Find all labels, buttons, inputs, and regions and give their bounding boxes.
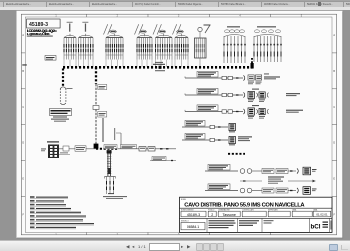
svg-text:01.02.01: 01.02.01 (316, 213, 328, 217)
svg-text:bСƖ: bСƖ (311, 224, 321, 231)
svg-text:L.QD1/N.2,2-4DF·: L.QD1/N.2,2-4DF· (27, 32, 50, 36)
svg-text:NOME: NOME (181, 199, 186, 201)
svg-text:D: D (22, 142, 24, 145)
svg-text:45189-3: 45189-3 (29, 22, 48, 28)
svg-text:45189-3: 45189-3 (187, 213, 200, 217)
svg-text:C: C (22, 106, 24, 109)
svg-text:Tassone: Tassone (223, 213, 236, 217)
svg-text:C: C (333, 106, 335, 109)
svg-text:2: 2 (211, 213, 213, 217)
svg-text:06584.1: 06584.1 (187, 225, 199, 229)
svg-text:D: D (333, 142, 335, 145)
svg-text:CAVO DISTRIB. PANO 55.9 IMS CO: CAVO DISTRIB. PANO 55.9 IMS CON NAVICELL… (184, 202, 305, 208)
